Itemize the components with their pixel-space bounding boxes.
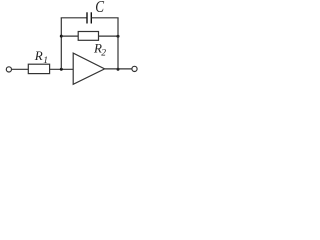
svg-text:2: 2 <box>101 49 106 59</box>
input terminal <box>6 67 11 72</box>
wire to R2 <box>61 35 78 37</box>
capacitor C plates <box>86 12 88 23</box>
wire cap branch left <box>61 17 87 19</box>
op-amp U1 <box>73 53 104 84</box>
svg-text:1: 1 <box>43 56 48 66</box>
wire R1 to op-amp <box>50 68 74 70</box>
node junction dot output <box>117 68 120 71</box>
resistor R2 <box>78 32 98 41</box>
node junction dot left R2 <box>60 35 63 38</box>
resistor R1 <box>28 64 49 73</box>
node A junction dot <box>60 68 63 71</box>
svg-text:C: C <box>95 0 105 17</box>
node junction dot right R2 <box>117 35 120 38</box>
svg-text:R: R <box>34 48 43 63</box>
wire input to R1 <box>12 68 29 70</box>
output terminal <box>132 66 137 71</box>
wire op-amp to output terminal <box>105 68 132 70</box>
wire R2 to right riser <box>99 35 119 37</box>
wire cap branch right <box>92 17 119 19</box>
wire left riser <box>60 18 62 69</box>
wire right riser <box>117 18 119 69</box>
